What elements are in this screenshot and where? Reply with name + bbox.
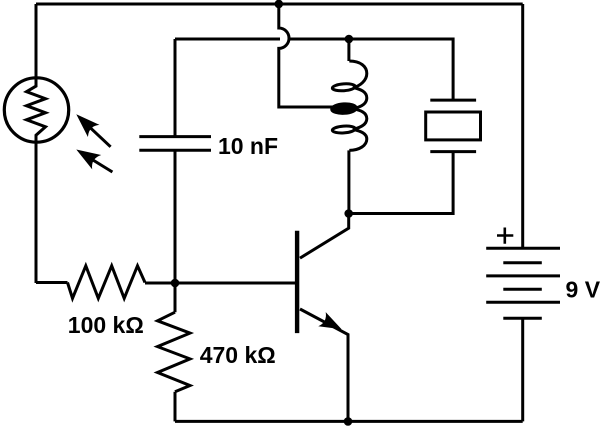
battery B1 plate long 1 [486, 247, 560, 250]
photoresistor light arrow 2 [76, 150, 112, 173]
battery B1 plate long 3 [486, 301, 560, 304]
transistor Q1 collector [300, 214, 349, 259]
wire resistor R1 to transistor base [145, 282, 296, 285]
resistor R2 470k bottom lead [174, 392, 177, 422]
capacitor C1 bottom lead [174, 150, 177, 283]
wire left rail lower [35, 144, 38, 284]
wire crystal bottom to collector node [349, 152, 453, 214]
inductor L1 loop ellipse 1 [332, 83, 355, 91]
wire top rail [36, 3, 523, 6]
crystal X1 body rectangle [426, 112, 481, 140]
svg-text:10 nF: 10 nF [218, 133, 278, 159]
wire bottom rail [175, 420, 523, 423]
battery B1 plate short 1 [503, 261, 542, 264]
crystal X1 top plate [430, 99, 476, 102]
transistor Q1 base bar [295, 231, 299, 333]
wire left rail upper [35, 4, 38, 77]
photoresistor light arrow 1 [76, 114, 110, 147]
node top tap junction [275, 0, 284, 8]
svg-text:470 kΩ: 470 kΩ [200, 342, 276, 368]
capacitor C1 top lead [174, 39, 177, 137]
wire row to resistor R1 [36, 281, 68, 284]
wire second rail left segment [175, 38, 280, 41]
node base junction [171, 279, 180, 288]
transistor Q1 emitter arrow [318, 312, 341, 329]
battery B1 top lead [521, 4, 524, 248]
inductor L1 top lead [347, 39, 350, 61]
inductor L1 coil serpentine [349, 61, 367, 150]
inductor L1 loop ellipse 3 [332, 125, 355, 133]
inductor L1 bottom lead [347, 150, 350, 213]
node inductor top junction [345, 35, 354, 44]
wire tap with hop over second rail [279, 4, 336, 107]
resistor R1 100k zigzag [68, 266, 146, 299]
svg-text:9 V: 9 V [566, 277, 600, 303]
wire second rail right segment [289, 39, 453, 100]
inductor L1 loop ellipse 2 (tap) [331, 103, 356, 114]
node collector junction [344, 209, 353, 218]
photoresistor LDR zigzag [27, 76, 46, 144]
capacitor C1 plates [139, 137, 211, 151]
resistor R2 470k zigzag [158, 312, 191, 392]
photoresistor LDR circle [4, 78, 68, 142]
battery B1 plus sign [497, 228, 513, 244]
battery B1 plate short 3 [503, 317, 542, 320]
battery B1 bottom lead [521, 318, 524, 421]
resistor R2 470k top lead [174, 283, 177, 312]
node emitter junction [344, 417, 353, 426]
crystal X1 bottom plate [430, 150, 476, 153]
battery B1 plate short 2 [503, 288, 542, 291]
transistor Q1 emitter [300, 309, 348, 421]
svg-text:100 kΩ: 100 kΩ [68, 312, 144, 338]
battery B1 plate long 2 [486, 274, 560, 277]
